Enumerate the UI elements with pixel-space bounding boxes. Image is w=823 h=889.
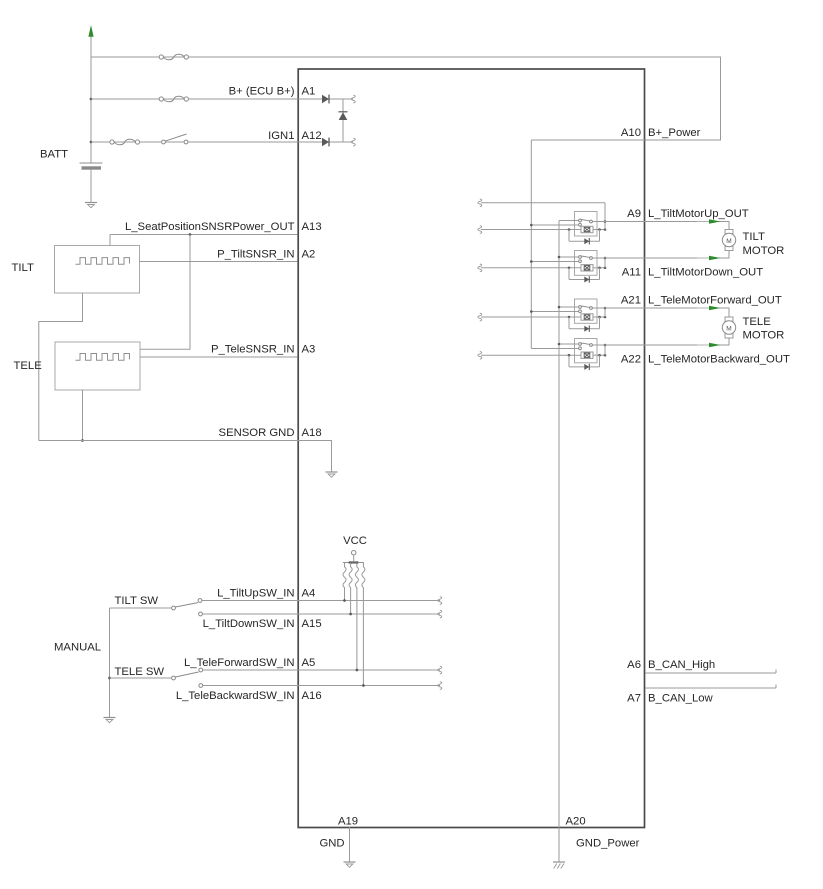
wire tele sensor output (A3) [140,356,298,358]
fuse F3 on IGN1 line [110,139,140,144]
svg-text:B_CAN_High: B_CAN_High [648,659,715,671]
wire A18 internal to ground [298,441,332,472]
wire K4 tele-back motor output line [592,344,645,346]
svg-text:SENSOR GND: SENSOR GND [219,427,295,439]
svg-text:M: M [726,325,731,332]
wire K3 tele-fwd motor output line [592,307,645,309]
svg-text:L_TiltMotorUp_OUT: L_TiltMotorUp_OUT [648,208,749,220]
ground (manual switches) [104,718,116,723]
label SENSOR GND [219,427,295,439]
junction vcc bar dots [349,561,358,564]
fuse F1 on top rail [159,54,188,59]
junction battery rail / IGN1 line [90,141,93,144]
label L_TeleForwardSW_IN [184,657,295,669]
wire A4 line [202,600,440,602]
svg-text:A3: A3 [302,344,316,356]
wire K2 tilt-down NO throw to B+ bus [531,261,578,263]
relay K2 tilt-down contact (SPDT switch) [579,256,593,263]
continuation squiggle A4 [438,597,442,605]
node battery positive rail (vertical wire from BATT to top arrow) [90,37,92,164]
relay coil K2 tilt-down [581,265,593,271]
wire sensor gnd line (A18) [39,440,298,442]
svg-text:L_TeleMotorBackward_OUT: L_TeleMotorBackward_OUT [648,354,790,366]
pin A11 label [622,267,641,279]
pin A5 label [302,657,316,669]
label TILT SW [115,595,159,607]
relay K3 tele-fwd outline [575,299,598,323]
pin A15 label [302,618,322,630]
junction coil dots K3 tele-fwd [568,316,607,319]
wire tele sensor power branch [140,235,190,350]
wire sensor power line (A13) [110,234,298,236]
junction manual common / tele sw [108,677,111,680]
svg-text:L_TiltUpSW_IN: L_TiltUpSW_IN [217,587,294,599]
label L_TiltUpSW_IN [217,587,294,599]
label TILT MOTOR [743,231,785,257]
svg-text:IGN1: IGN1 [268,130,294,142]
continuation squiggle coil K4 tele-back [478,351,482,359]
diode D2 (A12 input) [322,138,329,147]
svg-text:A13: A13 [302,221,322,233]
junction tele ground / sensor gnd line [81,439,84,442]
pin A13 label [302,221,322,233]
wire coil line K4 tele-back (from MCU) [481,354,605,356]
svg-text:MOTOR: MOTOR [743,330,785,342]
svg-text:TILT: TILT [743,231,765,243]
wire K1 tilt-up NO throw to B+ bus [531,224,578,226]
label TELE SW [115,666,165,678]
label GND [319,838,344,850]
wire K2 tilt-down output-to-coil link [604,258,606,268]
sensor TELE box [55,342,140,390]
wire A5 line [203,669,440,671]
junction gnd bus / K4 tele-back [558,343,561,346]
motor M1 TILT MOTOR [722,230,735,251]
svg-text:VCC: VCC [343,535,367,547]
label L_TeleMotorForward_OUT [648,295,782,307]
label P_TeleSNSR_IN [211,344,295,356]
continuation squiggle A1 [351,95,355,103]
svg-text:L_TeleForwardSW_IN: L_TeleForwardSW_IN [184,657,295,669]
flyback diode loop K4 tele-back [569,355,600,367]
wire zener branch vertical [342,99,344,142]
svg-text:A4: A4 [302,587,316,599]
wire coil line K2 tilt-down (from MCU) [481,267,605,269]
svg-text:B+_Power: B+_Power [648,127,701,139]
flow arrow tele-back (green) [697,343,721,348]
svg-text:A20: A20 [566,815,586,827]
wire A16 line [203,685,440,687]
continuation squiggle coil K3 tele-fwd [478,313,482,321]
tele sensor pulse waveform [76,354,130,361]
wire K1 tilt-up output-to-coil link [604,222,606,230]
svg-text:A12: A12 [302,130,322,142]
continuation squiggle K1 control [478,199,482,207]
wire K2 tilt-down motor output line [592,257,645,259]
wire manual common vertical [109,608,111,717]
svg-text:B+ (ECU B+): B+ (ECU B+) [229,86,295,98]
svg-text:TILT SW: TILT SW [115,595,159,607]
label TELE MOTOR [743,316,785,342]
pin A18 label [302,427,322,439]
label L_TeleBackwardSW_IN [176,690,295,702]
relay K3 tele-fwd contact (SPDT switch) [579,306,593,313]
svg-text:A11: A11 [622,267,641,279]
flyback diode D7 K4 tele-back [584,364,589,370]
svg-text:A16: A16 [302,690,322,702]
wire A1 internal [298,98,354,100]
svg-text:A19: A19 [338,815,358,827]
label L_SeatPositionSNSRPower_OUT [125,221,295,233]
continuation squiggle coil K1 tilt-up [478,226,482,234]
wire B+ internal bus [530,140,532,349]
flyback diode loop K2 tilt-down [569,268,600,280]
junction B+ bus / K2 tilt-down [530,260,533,263]
wire A12 internal [298,141,354,143]
pin A16 label [302,690,322,702]
relay K1 tilt-up outline [575,212,598,237]
wire K1 tilt-up NC throw to gnd bus [559,220,579,222]
svg-text:M: M [726,238,731,245]
wire coil line K3 tele-fwd (from MCU) [481,316,605,318]
label P_TiltSNSR_IN [217,248,294,260]
wire tilt motor return (A11 external) [645,251,729,259]
pin A3 label [302,344,316,356]
svg-text:L_SeatPositionSNSRPower_OUT: L_SeatPositionSNSRPower_OUT [125,221,295,233]
junction R4/A16 [362,684,365,687]
ground (sensor gnd internal) [326,472,338,477]
svg-text:A15: A15 [302,618,322,630]
wire relay K1 control line from MCU [481,202,605,204]
svg-text:A6: A6 [627,659,641,671]
wire B_CAN_Low line [645,685,776,689]
label B+ (ECU B+) [229,86,295,98]
ground (GND_Power chassis) [553,862,565,869]
continuation squiggle A12 [351,138,355,146]
tilt sensor pulse waveform [76,258,130,265]
wire GND_Power bus [558,221,560,828]
label L_TiltDownSW_IN [203,618,295,630]
svg-text:TELE: TELE [14,360,43,372]
resistor R2 (pullup A15) [349,563,352,615]
continuation squiggle A16 [438,682,442,690]
ignition switch SW1 (open) on IGN1 line [162,134,188,144]
svg-text:A21: A21 [621,295,641,307]
label IGN1 [268,130,294,142]
ECU connector box outline [298,69,644,828]
svg-text:P_TiltSNSR_IN: P_TiltSNSR_IN [217,248,294,260]
svg-text:A18: A18 [302,427,322,439]
wire A19 ground lead [349,827,351,862]
sensor TILT box [55,246,140,294]
wire K4 tele-back NC throw to gnd bus [559,343,579,345]
pin A22 label [621,354,641,366]
junction R1/A4 [343,599,346,602]
label L_TeleMotorBackward_OUT [648,354,790,366]
svg-text:TELE: TELE [743,316,772,328]
resistor R4 (pullup A16) [362,563,365,686]
relay K4 tele-back outline [575,339,598,363]
flyback diode loop K3 tele-fwd [569,317,600,329]
label GND_Power [576,838,640,850]
resistor R3 (pullup A5) [355,563,358,671]
ground (GND pin A19) [344,862,356,867]
diode D1 (A1 input) [322,95,329,104]
wire K4 tele-back NO throw to B+ bus [531,348,578,350]
VCC terminal circle [352,551,356,555]
label B_CAN_High [648,659,715,671]
wire tilt sw common [110,607,172,609]
junction coil dots K1 tilt-up [568,228,607,231]
wire K2 tilt-down NC throw to gnd bus [559,256,579,258]
pin A4 label [302,587,316,599]
junction gnd bus / K3 tele-fwd [558,306,561,309]
wire top rail to right column [91,57,721,140]
wire coil line K1 tilt-up (from MCU) [481,229,605,231]
wire tilt motor feed (A9 external) [645,222,729,230]
junction coil dots K2 tilt-down [568,267,607,270]
label A10 [621,127,641,139]
pin A9 label [627,208,641,220]
junction battery rail / B+ line [90,98,93,101]
label VCC [343,535,367,547]
svg-text:B_CAN_Low: B_CAN_Low [648,693,714,705]
battery BATT symbol [80,163,103,202]
wire A10 internal feed [531,139,645,141]
label B_CAN_Low [648,693,714,705]
flyback diode loop K1 tilt-up [569,230,600,242]
svg-text:TELE SW: TELE SW [115,666,165,678]
svg-text:A22: A22 [621,354,641,366]
continuation squiggle A15 [438,610,442,618]
relay K1 tilt-up contact (SPDT switch) [579,219,593,226]
pin A12 label [302,130,322,142]
continuation squiggle coil K2 tilt-down [478,264,482,272]
svg-text:A1: A1 [302,86,316,98]
junction B+ bus / K1 tilt-up [530,224,533,227]
wire VCC stub [343,555,364,563]
junction gnd bus / K2 tilt-down [558,256,561,259]
zener diode D3 (between A1 and A12 lines) [339,112,348,120]
wire tilt sensor power drop [109,235,111,246]
junction B+ bus / K3 tele-fwd [530,310,533,313]
label B+_Power [648,127,701,139]
junction output line K4 tele-back [604,344,607,347]
continuation squiggle A5 [438,666,442,674]
label BATT [40,149,68,161]
wire K4 tele-back output-to-coil link [604,345,606,355]
svg-text:A2: A2 [302,248,316,260]
wire A20 ground lead [558,827,560,862]
motor M2 TELE MOTOR [722,317,735,338]
svg-text:BATT: BATT [40,149,68,161]
svg-text:A5: A5 [302,657,316,669]
junction coil dots K4 tele-back [568,354,607,357]
relay coil K1 tilt-up [581,226,593,232]
svg-text:L_TeleBackwardSW_IN: L_TeleBackwardSW_IN [176,690,295,702]
wire K1 control drop [604,203,606,222]
flyback diode D5 K2 tilt-down [584,276,589,282]
tele switch SW3 (SPDT) [172,668,203,687]
svg-text:L_TiltDownSW_IN: L_TiltDownSW_IN [203,618,295,630]
svg-text:A7: A7 [627,693,641,705]
svg-text:MOTOR: MOTOR [743,245,785,257]
wire tele sensor ground leg [82,390,84,441]
wire tele sw common [110,677,172,679]
wire tele motor feed (A21 external) [645,308,729,317]
svg-text:TILT: TILT [12,262,34,274]
flyback diode D4 K1 tilt-up [584,238,589,244]
label A6 [627,659,641,671]
svg-text:L_TeleMotorForward_OUT: L_TeleMotorForward_OUT [648,295,782,307]
label L_TiltMotorUp_OUT [648,208,749,220]
wire tilt sensor output (A2) [140,261,298,263]
label TILT [12,262,34,274]
wire B+ (ECU B+) line [91,98,298,100]
fuse F2 on B+ line [159,96,188,101]
ground (battery) [85,203,97,208]
pin A21 label [621,295,641,307]
flyback diode D6 K3 tele-fwd [584,326,589,332]
junction output line K2 tilt-down [604,257,607,260]
junction R3/A5 [356,669,359,672]
svg-text:GND_Power: GND_Power [576,838,640,850]
relay coil K4 tele-back [581,352,593,358]
junction output line K1 tilt-up [604,220,607,223]
wire K1 tilt-up motor output line [592,221,645,223]
wire A15 line [203,613,441,615]
relay K2 tilt-down outline [575,251,598,276]
flow arrow tele-forward (green) [697,306,721,311]
svg-text:A9: A9 [627,208,641,220]
label MANUAL [54,642,101,654]
svg-text:L_TiltMotorDown_OUT: L_TiltMotorDown_OUT [648,267,763,279]
wire tilt sensor ground leg [39,293,83,441]
wire tele motor return (A22 external) [645,338,729,345]
label TELE [14,360,43,372]
pin A2 label [302,248,316,260]
pin A1 label [302,86,316,98]
pin A19 label [338,815,358,827]
svg-text:MANUAL: MANUAL [54,642,101,654]
svg-text:GND: GND [319,838,344,850]
label A7 [627,693,641,705]
wire B_CAN_High line [645,670,776,674]
relay coil K3 tele-fwd [581,314,593,320]
flow arrow tilt-down (green) [697,256,721,261]
wire K3 tele-fwd NO throw to B+ bus [531,311,578,313]
junction output line K3 tele-fwd [604,307,607,310]
flow arrow tilt-up (green) [697,219,721,224]
pin A20 label [566,815,586,827]
wire K3 tele-fwd NC throw to gnd bus [559,306,579,308]
tilt switch SW2 (SPDT) [172,599,203,616]
label L_TiltMotorDown_OUT [648,267,763,279]
wire K3 tele-fwd output-to-coil link [604,308,606,317]
svg-text:A10: A10 [621,127,641,139]
wire IGN1 line [91,141,298,143]
power-flow arrow (green, up) at top of battery rail [88,25,93,37]
relay K4 tele-back contact (SPDT switch) [579,343,593,350]
junction R2/A15 [349,613,352,616]
resistor R1 (pullup A4) [343,563,346,601]
svg-text:P_TeleSNSR_IN: P_TeleSNSR_IN [211,344,295,356]
junction sensor power / tele branch [189,233,192,236]
